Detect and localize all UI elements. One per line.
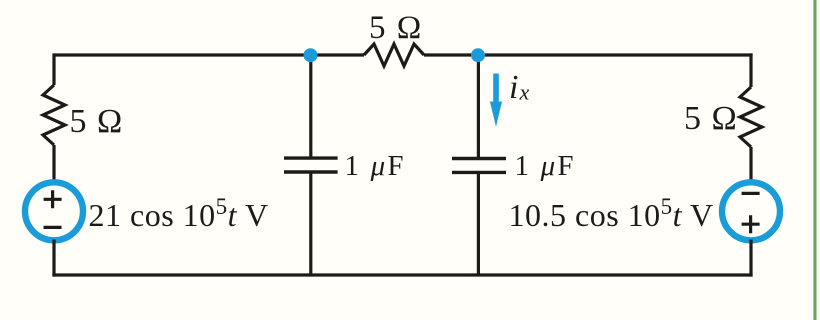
resistor R1 5ohm zigzag (left)	[43, 85, 65, 145]
wire right branch lower	[749, 240, 752, 277]
voltage source VS1 circle	[25, 182, 83, 240]
svg-text:5 Ω: 5 Ω	[369, 10, 423, 46]
VS2 minus sign	[742, 192, 760, 195]
wire capacitor C2 branch lower	[477, 172, 480, 275]
wire capacitor C2 branch upper	[477, 55, 480, 159]
svg-text:1 μF: 1 μF	[515, 150, 576, 182]
voltage source VS2 circle	[722, 182, 780, 240]
wire left branch lower	[52, 240, 55, 277]
current arrow ix	[490, 74, 502, 127]
VS2 plus sign	[742, 215, 760, 233]
capacitor C1 plates	[284, 158, 338, 172]
resistor R3 5ohm zigzag (right)	[740, 87, 762, 147]
wire left branch upper	[52, 53, 55, 85]
VS1 minus sign	[44, 226, 62, 229]
svg-text:10.5 cos 105t V: 10.5 cos 105t V	[509, 194, 714, 233]
wire right branch upper	[749, 53, 752, 87]
svg-text:i: i	[509, 69, 518, 106]
svg-text:5 Ω: 5 Ω	[684, 100, 738, 137]
wire right branch middle	[749, 147, 752, 183]
node A junction dot	[304, 48, 318, 62]
VS1 plus sign	[44, 190, 62, 208]
wire capacitor C1 branch upper	[309, 55, 312, 158]
svg-text:5 Ω: 5 Ω	[70, 103, 124, 140]
wire top-right	[424, 53, 753, 56]
capacitor C2 plates	[452, 159, 506, 173]
svg-text:1 μF: 1 μF	[345, 150, 406, 182]
wire top-left (node A to node B)	[54, 53, 364, 56]
page margin rule	[813, 0, 816, 320]
svg-text:21 cos 105t V: 21 cos 105t V	[89, 194, 269, 233]
wire capacitor C1 branch lower	[309, 172, 312, 275]
resistor R2 5ohm zigzag (top)	[364, 44, 424, 66]
wire left branch middle	[52, 145, 55, 183]
svg-text:x: x	[519, 80, 530, 105]
wire bottom	[52, 273, 752, 276]
node B junction dot	[471, 48, 485, 62]
